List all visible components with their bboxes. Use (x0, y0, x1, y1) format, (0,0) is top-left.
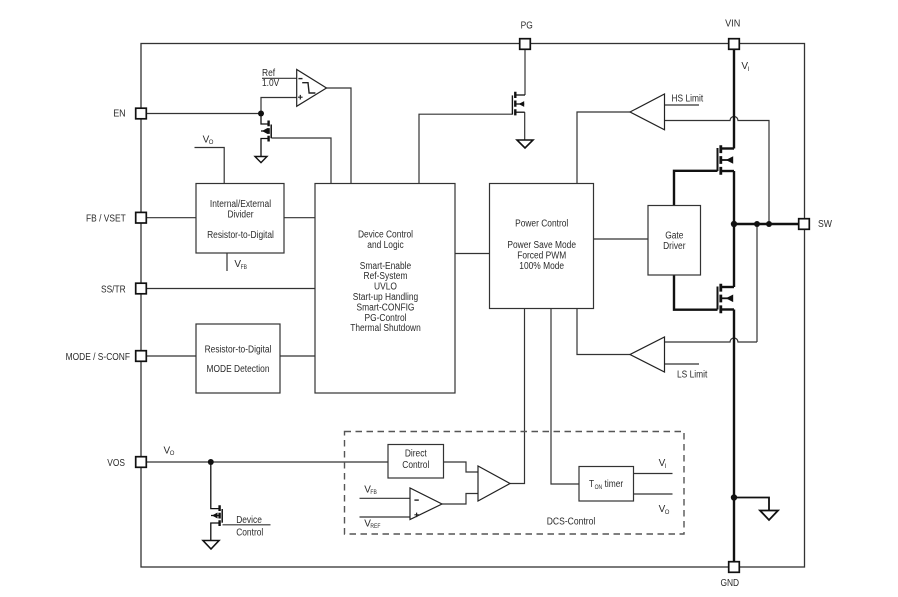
svg-text:O: O (209, 140, 214, 146)
pin FB / VSET (86, 212, 146, 224)
label VO at TON (659, 504, 670, 516)
transistor Q5 VOS discharge (211, 462, 222, 540)
ground for Q2 (517, 140, 533, 148)
svg-text:FB: FB (370, 490, 376, 496)
wire VIN pin to Q3 drain (733, 50, 735, 149)
svg-text:Internal/External: Internal/External (210, 199, 271, 210)
svg-text:PG-Control: PG-Control (365, 313, 407, 324)
label VI at VIN (741, 61, 749, 73)
wire HS Limit reference input (665, 104, 700, 106)
label VFB below divider (234, 259, 247, 271)
wire power control to TON timer (551, 309, 579, 485)
wire SW node to SW pin (734, 223, 799, 225)
wire VREF input to comparator U4 (360, 516, 411, 518)
junction node SW b (754, 221, 760, 227)
wire Q4 source to GND pin (733, 310, 735, 563)
wire EN junction to comparator + input (261, 98, 297, 114)
block TON timer (579, 467, 634, 502)
label VFB in DCS (364, 484, 377, 496)
svg-text:UVLO: UVLO (374, 282, 397, 293)
wire VOS pin to direct control (146, 461, 388, 463)
wire MODE pin to mode block (146, 355, 196, 357)
svg-text:Device Control: Device Control (358, 230, 413, 241)
pin VOS (107, 457, 146, 469)
wire TON timer output VO (634, 493, 673, 495)
svg-text:FB / VSET: FB / VSET (86, 213, 126, 224)
wire PG pin to Q2 drain (524, 50, 526, 96)
pin PG (520, 20, 533, 49)
transistor Q2 PG open drain (512, 92, 525, 116)
transistor Q4 low side FET (718, 284, 735, 313)
svg-text:Power Control: Power Control (515, 219, 568, 230)
svg-text:Control: Control (402, 460, 429, 471)
wire VFB stub below divider (226, 253, 228, 272)
comparator U4 (410, 488, 442, 520)
comparator LS Limit (630, 337, 665, 372)
label VREF in DCS (364, 519, 381, 531)
junction node SW c (766, 221, 772, 227)
svg-text:O: O (665, 510, 670, 516)
block DCS-Control dashed (345, 432, 685, 535)
comparator U1 with hysteresis (297, 70, 327, 107)
wire Q2 gate to logic (419, 114, 512, 183)
svg-text:Resistor-to-Digital: Resistor-to-Digital (207, 230, 274, 241)
svg-text:ON: ON (595, 485, 603, 491)
svg-text:Gate: Gate (665, 231, 684, 242)
transistor Q3 high side FET (718, 145, 735, 174)
svg-text:Ref-System: Ref-System (364, 271, 408, 282)
svg-text:O: O (170, 451, 175, 457)
junction node VOS (208, 459, 214, 465)
svg-text:MODE / S-CONF: MODE / S-CONF (66, 352, 130, 363)
label Ref 1.0V (262, 68, 280, 89)
wire HS comparator sense input with hop (665, 117, 770, 225)
svg-text:MODE Detection: MODE Detection (207, 364, 270, 375)
svg-text:Smart-Enable: Smart-Enable (360, 261, 412, 272)
wire power control to gate driver (594, 238, 649, 240)
wire gate driver to Q3 gate (674, 171, 718, 206)
block internal/external divider (196, 184, 284, 254)
wire gate driver to Q4 gate (674, 275, 718, 310)
svg-text:DCS-Control: DCS-Control (547, 517, 596, 528)
block direct control (388, 445, 444, 479)
svg-text:100% Mode: 100% Mode (519, 261, 564, 272)
block mode detection (196, 324, 280, 393)
svg-text:timer: timer (605, 479, 624, 490)
svg-text:Thermal Shutdown: Thermal Shutdown (350, 323, 421, 334)
svg-text:Divider: Divider (227, 209, 254, 220)
ground for GND net (760, 511, 778, 521)
pin MODE / S-CONF (66, 351, 147, 363)
wire Ref 1.0V to comparator - input (262, 77, 297, 79)
wire LS Limit reference input (665, 363, 700, 365)
wire Q1 gate to logic (272, 138, 332, 184)
svg-text:GND: GND (720, 578, 739, 589)
wire GND node to ground symbol (734, 498, 769, 511)
wire direct control to AND stage (444, 462, 479, 472)
label VO at VOS (164, 446, 175, 458)
pin GND (720, 562, 739, 589)
label VO above divider (203, 134, 214, 146)
svg-text:T: T (589, 479, 594, 490)
IC boundary box (141, 44, 805, 568)
svg-text:and Logic: and Logic (367, 240, 403, 251)
svg-text:HS Limit: HS Limit (672, 93, 704, 104)
svg-text:Device: Device (236, 515, 262, 526)
transistor Q1 EN level shift (261, 114, 271, 157)
svg-text:FB: FB (241, 265, 247, 271)
wire Q2 source to ground (524, 112, 526, 140)
svg-text:Resistor-to-Digital: Resistor-to-Digital (205, 345, 272, 356)
block device control and logic (315, 184, 455, 394)
svg-text:LS Limit: LS Limit (677, 369, 707, 380)
junction node EN (258, 111, 264, 117)
junction node SW a (731, 221, 737, 227)
block gate driver (648, 206, 701, 276)
wire DCS output to power control (510, 309, 525, 484)
svg-text:EN: EN (113, 108, 126, 119)
pin VIN (725, 19, 740, 50)
buffer stage U5 (478, 466, 510, 501)
ground for Q5 (203, 541, 219, 550)
svg-text:1.0V: 1.0V (262, 78, 280, 89)
wire FB/VSET pin to divider block (146, 217, 196, 219)
svg-text:SW: SW (818, 219, 832, 230)
wire Q3 source to SW node (733, 171, 735, 224)
label Device Control at Q5 (236, 515, 263, 538)
wire mode block to logic (280, 355, 315, 357)
wire TON timer output VI (634, 473, 673, 475)
svg-text:Smart-CONFIG: Smart-CONFIG (357, 302, 415, 313)
wire comparator U1 output to logic (327, 88, 352, 184)
junction node GND (731, 494, 737, 500)
svg-text:REF: REF (370, 524, 380, 530)
pin EN (113, 108, 146, 119)
ground for Q1 (255, 157, 267, 163)
wire comparator U4 to AND stage (442, 494, 478, 505)
pin SW (799, 219, 833, 230)
wire VO stub to divider top (195, 148, 225, 185)
wire LS comparator sense input with hop (665, 224, 758, 342)
block power control (490, 184, 594, 309)
svg-text:VIN: VIN (725, 19, 740, 30)
wire VFB input to comparator U4 (360, 497, 411, 499)
label VI at TON (659, 458, 667, 470)
wire SW node to Q4 drain (733, 224, 735, 287)
svg-text:Control: Control (236, 528, 263, 539)
wire EN pin to junction (146, 113, 261, 115)
wire HS comparator output to power control (577, 112, 630, 184)
wire logic to power control (455, 253, 490, 255)
comparator HS Limit (630, 94, 665, 130)
wire LS comparator output to power control (577, 309, 630, 355)
svg-text:Forced PWM: Forced PWM (517, 251, 566, 262)
svg-text:Driver: Driver (663, 241, 686, 252)
wire divider block to logic (284, 217, 315, 219)
wire Q5 gate Device Control (223, 524, 271, 526)
wire SS/TR pin to logic (146, 288, 315, 290)
svg-text:PG: PG (521, 20, 533, 31)
svg-text:Start-up Handling: Start-up Handling (353, 292, 418, 303)
svg-text:Power Save Mode: Power Save Mode (507, 240, 576, 251)
svg-text:Direct: Direct (405, 449, 427, 460)
pin SS/TR (101, 283, 146, 295)
svg-text:SS/TR: SS/TR (101, 284, 126, 295)
svg-text:VOS: VOS (107, 458, 125, 469)
